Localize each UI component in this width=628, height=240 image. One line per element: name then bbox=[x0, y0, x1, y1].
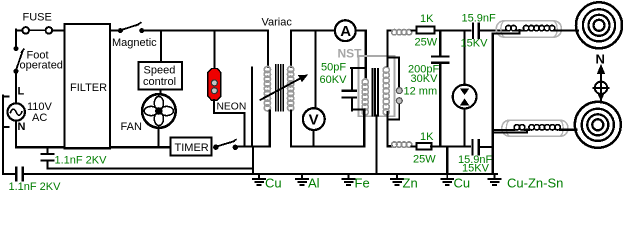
wire NST secondary top lead bbox=[387, 31, 392, 66]
ground Cu-Zn-Sn bbox=[489, 175, 564, 191]
svg-text:Cu-Zn-Sn: Cu-Zn-Sn bbox=[507, 176, 563, 191]
svg-text:Magnetic: Magnetic bbox=[112, 37, 157, 49]
svg-text:TIMER: TIMER bbox=[175, 142, 209, 154]
wire coil to spiral top bbox=[555, 30, 578, 32]
primary coil L3 top bbox=[506, 25, 555, 30]
spiral coil bottom bbox=[575, 102, 621, 148]
svg-text:V: V bbox=[309, 112, 319, 129]
resistor R2 1K 25W bbox=[413, 131, 436, 166]
wire NST primary return bbox=[363, 109, 365, 146]
neon lamp DS1 bbox=[208, 69, 246, 113]
ground Cu 2 bbox=[441, 175, 470, 191]
wire tap bottom bbox=[493, 130, 527, 133]
svg-text:1.1nF 2KV: 1.1nF 2KV bbox=[9, 181, 62, 193]
wire variac wiper drop bbox=[251, 68, 253, 147]
switch S2 magnetic bbox=[112, 23, 157, 49]
wire junction drop to rails bbox=[252, 146, 254, 174]
secondary coil form bottom bbox=[502, 120, 568, 136]
wire NEON branch from top rail bbox=[214, 32, 216, 69]
switch S3 timer bbox=[213, 140, 238, 150]
wire resistor2 to cap2 bbox=[431, 145, 470, 147]
svg-text:30KV: 30KV bbox=[411, 73, 439, 85]
wire timer switch to variac bottom bbox=[238, 145, 270, 147]
wire foot switch to source bbox=[15, 74, 17, 104]
inductor L2 choke bottom bbox=[392, 142, 412, 147]
wire variac bottom leads bbox=[270, 111, 291, 147]
node N compass bbox=[594, 52, 609, 102]
wire cap2 to tap bbox=[481, 146, 493, 148]
ammeter A bbox=[335, 20, 356, 41]
svg-text:Cu: Cu bbox=[265, 176, 282, 191]
wire fuse to FILTER bbox=[52, 30, 64, 32]
variac T1 bbox=[261, 17, 309, 112]
svg-text:Fe: Fe bbox=[355, 176, 370, 191]
wire lower coil lead bbox=[493, 129, 515, 131]
svg-text:A: A bbox=[340, 23, 351, 40]
primary coil form top bbox=[496, 21, 561, 37]
svg-text:1K: 1K bbox=[420, 13, 434, 25]
ground Al bbox=[296, 175, 320, 191]
svg-text:Cu: Cu bbox=[454, 176, 471, 191]
speed control box U2 bbox=[139, 62, 183, 90]
svg-text:FILTER: FILTER bbox=[70, 82, 107, 94]
fuse F1 bbox=[22, 12, 52, 34]
svg-text:60KV: 60KV bbox=[320, 74, 348, 86]
svg-text:AC: AC bbox=[32, 112, 47, 124]
svg-text:control: control bbox=[143, 76, 176, 88]
capacitor C2 1.1nF 2KV horizontal bbox=[9, 168, 62, 193]
svg-text:Al: Al bbox=[308, 176, 320, 191]
wire drop to ground rail bbox=[446, 146, 448, 174]
svg-text:operated: operated bbox=[20, 60, 63, 72]
svg-text:FAN: FAN bbox=[121, 121, 142, 133]
svg-text:NST: NST bbox=[338, 46, 363, 60]
wire rail A bbox=[47, 167, 253, 169]
wire NST secondary bottom lead bbox=[387, 112, 392, 146]
wire NST core ground bbox=[376, 116, 378, 175]
ground Zn bbox=[391, 175, 418, 191]
wire neon to timer junction bbox=[214, 100, 244, 146]
wire cap to primary coil bbox=[481, 30, 507, 32]
svg-text:1K: 1K bbox=[420, 131, 434, 143]
svg-text:1.1nF 2KV: 1.1nF 2KV bbox=[55, 155, 108, 167]
wire primary tap drop bbox=[492, 34, 494, 174]
capacitor C5 15.9nF 15KV top bbox=[461, 13, 497, 50]
NST secondary coil bbox=[383, 67, 389, 115]
svg-text:25W: 25W bbox=[413, 154, 436, 166]
svg-text:12 mm: 12 mm bbox=[404, 86, 438, 98]
fan M1 bbox=[121, 94, 176, 133]
wire fan to N rail bbox=[157, 128, 159, 146]
svg-text:N: N bbox=[596, 52, 605, 67]
svg-text:15KV: 15KV bbox=[461, 38, 489, 50]
wire left drop to foot switch bbox=[15, 30, 17, 47]
svg-text:50pF: 50pF bbox=[321, 62, 346, 74]
wire rail B chassis ground rail bbox=[25, 173, 497, 175]
timer box U3 bbox=[171, 138, 212, 156]
resistor R1 1K 25W bbox=[415, 13, 438, 49]
AC source 110V bbox=[8, 101, 53, 124]
capacitor C1 1.1nF 2KV vertical bbox=[41, 148, 107, 168]
wire coil to spiral bottom bbox=[560, 129, 577, 131]
switch S1 foot operated bbox=[14, 46, 63, 74]
svg-text:NEON: NEON bbox=[217, 101, 247, 112]
NST T2 box bbox=[338, 46, 395, 116]
wire FILTER to magnetic switch bbox=[110, 30, 118, 32]
gas discharge tube V1 bbox=[453, 32, 477, 147]
NST core bbox=[372, 69, 378, 116]
svg-text:Zn: Zn bbox=[403, 176, 418, 191]
svg-text:25W: 25W bbox=[415, 37, 438, 49]
svg-text:15.9nF: 15.9nF bbox=[462, 13, 497, 25]
NST primary coil bbox=[362, 79, 368, 115]
wire resistor to cap bbox=[435, 30, 471, 32]
wire branch to speed control bbox=[160, 32, 162, 62]
wire tap top bbox=[493, 30, 520, 33]
wire ammeter to NST primary bbox=[356, 31, 366, 79]
wire variac bottom to NST return bbox=[291, 145, 364, 147]
wire top rail left to fuse bbox=[16, 30, 22, 32]
svg-text:N: N bbox=[18, 121, 26, 133]
capacitor C4 200pF 30KV bbox=[408, 32, 449, 147]
spiral coil top bbox=[576, 2, 622, 48]
capacitor C6 15.9nF 15KV bottom bbox=[458, 140, 493, 174]
svg-text:L: L bbox=[18, 86, 25, 98]
spark gap SG1 12mm bbox=[387, 57, 437, 119]
filter box U1 bbox=[65, 24, 111, 148]
capacitor C3 50pF 60KV bbox=[320, 62, 366, 111]
svg-text:Variac: Variac bbox=[262, 17, 293, 29]
ground Cu bbox=[253, 175, 282, 191]
wire speed control to fan bbox=[159, 90, 161, 94]
svg-text:FUSE: FUSE bbox=[23, 12, 52, 24]
inductor L1 choke top bbox=[392, 30, 412, 35]
wire variac output rail bbox=[291, 30, 335, 32]
wire source to N rail bbox=[16, 121, 65, 148]
svg-text:15KV: 15KV bbox=[462, 162, 490, 174]
wire N rail FILTER to TIMER bbox=[110, 146, 171, 148]
svg-text:Speed: Speed bbox=[144, 65, 176, 77]
wire choke to resistor bbox=[412, 30, 417, 32]
chassis enclosure line bbox=[3, 96, 15, 175]
primary coil L4 bottom bbox=[514, 125, 560, 130]
voltmeter V bbox=[303, 32, 325, 147]
wire top rail to variac bbox=[144, 30, 268, 32]
wire choke2 to resistor2 bbox=[412, 145, 417, 147]
ground Fe bbox=[343, 175, 370, 191]
